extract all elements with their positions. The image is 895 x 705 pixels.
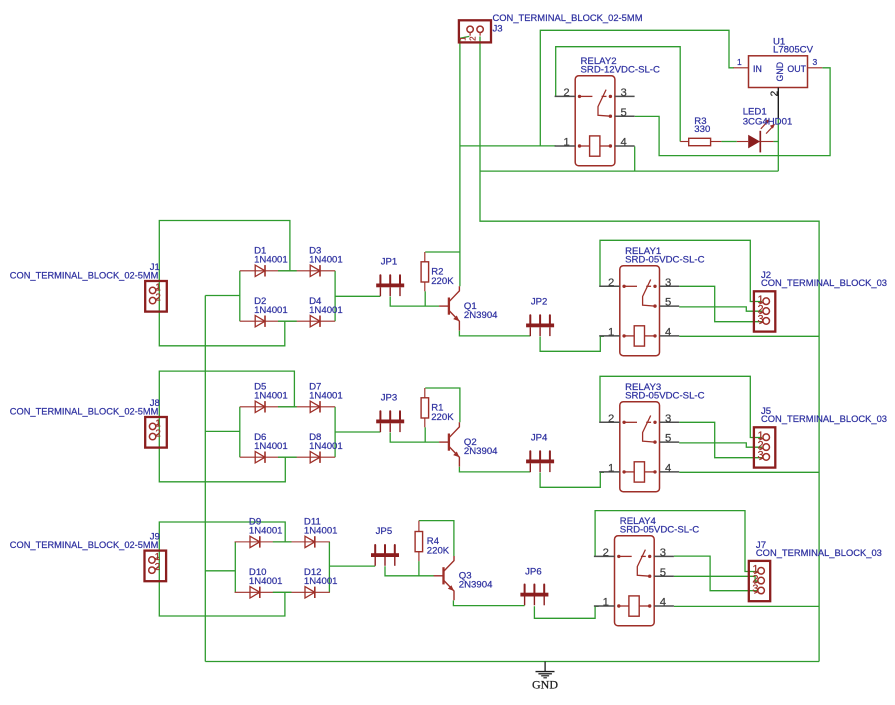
svg-text:J3: J3 (493, 24, 503, 35)
wire bridge3 out to JP5 (329, 565, 375, 567)
ground GND (532, 662, 558, 692)
label D2 (254, 296, 288, 316)
svg-text:1N4001: 1N4001 (304, 526, 338, 537)
wire bridge2 left mid to bus (205, 430, 240, 432)
wire RELAY4 pin5 to J7-2 (674, 576, 758, 581)
label J1 (10, 262, 160, 282)
svg-text:2: 2 (770, 90, 781, 96)
svg-text:4: 4 (665, 327, 671, 339)
wire +12V from J3-1 down (460, 36, 469, 286)
svg-text:2: 2 (155, 429, 160, 440)
wire bridge2 right vertical (334, 407, 336, 457)
svg-text:5: 5 (665, 433, 671, 445)
terminal block J2 (754, 291, 775, 331)
label D4 (309, 296, 343, 316)
wire bridge1 left vertical (239, 271, 241, 321)
svg-text:5: 5 (620, 107, 626, 119)
wire AC1 row1 J1 loop (159, 221, 290, 346)
label D9 (249, 517, 283, 537)
svg-text:CON_TERMINAL_BLOCK_03: CON_TERMINAL_BLOCK_03 (756, 548, 882, 559)
svg-text:1N4001: 1N4001 (254, 305, 288, 316)
wire R4 bottom (418, 561, 420, 576)
relay RELAY2 SRD-12VDC-SL-C (555, 56, 660, 166)
svg-text:3: 3 (813, 57, 818, 67)
wire +12V branch R2 top (425, 251, 460, 253)
svg-text:1N4001: 1N4001 (249, 576, 283, 587)
wire LED cathode to node (773, 141, 778, 143)
svg-text:3CG4HD01: 3CG4HD01 (743, 116, 793, 127)
terminal block J7 (749, 561, 770, 601)
wire JP2-2 to RELAY1 pin1 (540, 336, 604, 351)
svg-text:5: 5 (665, 297, 671, 309)
svg-text:1N4001: 1N4001 (309, 390, 343, 401)
wire Q2 emitter to JP4 (459, 467, 530, 472)
svg-text:GND: GND (775, 62, 785, 82)
label D5 (254, 382, 288, 402)
svg-text:3: 3 (665, 413, 671, 425)
svg-text:3: 3 (757, 314, 763, 326)
label D8 (309, 432, 343, 452)
svg-text:1N4001: 1N4001 (309, 305, 343, 316)
wire JP6-2 to RELAY4 pin1 (534, 606, 598, 618)
label JP3 (381, 392, 398, 403)
transistor Q1 2N3904 (439, 286, 459, 330)
svg-text:1N4001: 1N4001 (254, 254, 288, 265)
wire JP1-2 to Q1 base (390, 297, 439, 307)
wire RELAY1 pin2 riser to J2-1 (600, 240, 762, 301)
svg-text:2: 2 (469, 36, 478, 41)
svg-text:OUT: OUT (787, 64, 806, 74)
wire GND12 branch to U1 GND and RELAY2 pin4 (480, 170, 778, 172)
svg-text:3: 3 (660, 547, 666, 559)
jumper JP6 (520, 585, 548, 606)
label Q3 (459, 571, 493, 591)
terminal block J1 (145, 281, 167, 312)
wire left bus vertical (204, 296, 206, 662)
wire bridge1 out to JP1 (335, 295, 380, 297)
svg-text:4: 4 (665, 463, 671, 475)
svg-text:JP6: JP6 (525, 566, 542, 577)
wire JP3-2 to Q2 base (390, 433, 439, 443)
wire bridge1 left mid to bus (205, 295, 240, 297)
svg-text:3: 3 (752, 583, 758, 595)
svg-text:CON_TERMINAL_BLOCK_02-5MM: CON_TERMINAL_BLOCK_02-5MM (10, 406, 159, 417)
label R2 (431, 266, 454, 286)
svg-text:1: 1 (603, 597, 609, 609)
transistor Q2 2N3904 (439, 422, 459, 466)
label R4 (427, 536, 450, 556)
svg-text:4: 4 (660, 597, 666, 609)
svg-text:2N3904: 2N3904 (459, 580, 493, 591)
wire R2 bottom (424, 291, 426, 306)
label D1 (254, 246, 288, 266)
label JP1 (381, 256, 398, 267)
svg-text:1N4001: 1N4001 (309, 254, 343, 265)
wire RELAY4 pin3 to J7-3 (674, 556, 758, 591)
terminal block J8 (145, 417, 167, 448)
LED LED1 3CG4HD01 (737, 119, 775, 152)
wire bridge3 right vertical (328, 542, 330, 592)
svg-text:2: 2 (608, 277, 614, 289)
relay RELAY3 SRD-05VDC-SL-C (599, 382, 704, 492)
label R1 (431, 402, 454, 422)
wire RELAY3 pin2 riser to J5-1 (600, 376, 762, 437)
wire RELAY1 pin4 to right bus (679, 335, 819, 337)
jumper JP4 (526, 451, 554, 472)
wire bottom GND bus (205, 661, 819, 663)
wire RELAY1 pin3 to J2-3 (679, 286, 762, 321)
label D7 (309, 382, 343, 402)
svg-text:3: 3 (665, 277, 671, 289)
label J7 (756, 540, 882, 559)
terminal block J9 (145, 551, 167, 582)
svg-text:IN: IN (753, 64, 762, 74)
svg-text:2N3904: 2N3904 (464, 446, 498, 457)
svg-text:2: 2 (603, 547, 609, 559)
label D3 (309, 246, 343, 266)
label JP2 (531, 296, 548, 307)
wire RELAY3 pin3 to J5-3 (679, 422, 762, 457)
wire +12V branch to RELAY2 pin1 (460, 145, 556, 147)
bridge rectifier row2 diodes D5-D8 (240, 401, 335, 463)
label Q2 (464, 437, 498, 457)
svg-text:2N3904: 2N3904 (464, 310, 498, 321)
wire Q1 emitter to JP2 (459, 331, 530, 336)
svg-text:SRD-05VDC-SL-C: SRD-05VDC-SL-C (620, 525, 700, 536)
jumper JP5 (371, 545, 399, 566)
wire AC1 row3 J9 loop (159, 522, 285, 616)
svg-text:1N4001: 1N4001 (309, 441, 343, 452)
svg-text:1N4001: 1N4001 (249, 526, 283, 537)
svg-text:JP2: JP2 (531, 296, 548, 307)
wire bridge1 right vertical (334, 271, 336, 321)
terminal block J3 (459, 20, 492, 42)
resistor R4 220K (415, 521, 423, 562)
wire GND12 from J3-2 down and right bus (480, 36, 819, 661)
svg-text:220K: 220K (431, 276, 454, 287)
svg-text:4: 4 (620, 137, 626, 149)
wire RELAY2 pin2 to R3 (556, 47, 681, 142)
svg-text:CON_TERMINAL_BLOCK_02-5MM: CON_TERMINAL_BLOCK_02-5MM (493, 13, 643, 24)
resistor R1 220K (421, 388, 429, 427)
label D10 (249, 567, 283, 587)
svg-text:1: 1 (563, 137, 569, 149)
label U1 (773, 37, 814, 56)
wire U1 GND pin to LED node (777, 118, 779, 171)
voltage regulator U1 L7805CV (734, 56, 823, 119)
svg-text:GND: GND (532, 677, 558, 691)
label J8 (10, 398, 160, 418)
wire bridge2 left vertical (239, 407, 241, 457)
label JP5 (376, 526, 393, 537)
wire RELAY3 pin5 to J5-2 (679, 443, 762, 447)
wire +12V riser to U1 IN (540, 30, 734, 146)
label LED1 (743, 107, 793, 128)
svg-text:220K: 220K (427, 545, 450, 556)
svg-text:2: 2 (563, 87, 569, 99)
wire bridge2 out to JP3 (335, 431, 380, 433)
svg-text:JP5: JP5 (376, 526, 393, 537)
svg-text:220K: 220K (431, 412, 454, 423)
label J3 (493, 13, 643, 35)
wire U1 OUT to RELAY2 pin5 (635, 68, 830, 156)
label Q1 (464, 301, 498, 321)
wire JP5-2 to Q3 base (385, 566, 434, 576)
svg-text:L7805CV: L7805CV (773, 45, 814, 56)
label J2 (761, 270, 887, 289)
svg-text:SRD-12VDC-SL-C: SRD-12VDC-SL-C (581, 65, 661, 76)
svg-text:1N4001: 1N4001 (254, 441, 288, 452)
svg-text:1: 1 (737, 57, 742, 67)
bridge rectifier row3 diodes D9-D12 (235, 536, 330, 598)
wire RELAY4 pin4 to right bus (674, 605, 819, 607)
wire RELAY4 pin2 riser to J7-1 (595, 511, 757, 572)
label D11 (304, 517, 338, 537)
label J5 (761, 406, 887, 425)
label J9 (10, 532, 160, 552)
svg-text:JP1: JP1 (381, 256, 398, 267)
svg-text:1: 1 (459, 36, 468, 41)
svg-text:3: 3 (757, 450, 763, 462)
wire R3 to LED anode (721, 141, 736, 143)
svg-text:CON_TERMINAL_BLOCK_02-5MM: CON_TERMINAL_BLOCK_02-5MM (10, 540, 159, 551)
svg-text:330: 330 (694, 124, 710, 135)
svg-text:CON_TERMINAL_BLOCK_03: CON_TERMINAL_BLOCK_03 (761, 414, 887, 425)
resistor R2 220K (421, 252, 429, 291)
label D6 (254, 432, 288, 452)
svg-text:SRD-05VDC-SL-C: SRD-05VDC-SL-C (625, 255, 705, 266)
label JP6 (525, 566, 542, 577)
svg-text:1: 1 (608, 463, 614, 475)
wire RELAY2 pin4 drop (634, 146, 636, 171)
wire bridge3 left mid to bus (205, 570, 235, 572)
relay RELAY1 SRD-05VDC-SL-C (599, 246, 704, 356)
label D12 (304, 567, 338, 587)
wire R1 top to Q2 collector (425, 388, 460, 422)
svg-text:1N4001: 1N4001 (304, 576, 338, 587)
bridge rectifier row1 diodes D1-D4 (240, 265, 335, 327)
svg-text:2: 2 (155, 293, 160, 304)
wire AC1 row2 J8 loop (159, 371, 294, 482)
svg-text:CON_TERMINAL_BLOCK_03: CON_TERMINAL_BLOCK_03 (761, 278, 887, 289)
jumper JP2 (526, 315, 554, 336)
wire RELAY1 pin5 to J2-2 (679, 307, 762, 311)
wire R1 bottom (424, 427, 426, 442)
svg-text:JP4: JP4 (531, 432, 548, 443)
svg-text:SRD-05VDC-SL-C: SRD-05VDC-SL-C (625, 391, 705, 402)
resistor R3 330 (680, 138, 721, 145)
svg-text:3: 3 (620, 87, 626, 99)
label R3 (694, 116, 710, 135)
terminal block J5 (754, 427, 775, 467)
svg-text:JP3: JP3 (381, 392, 398, 403)
label JP4 (531, 432, 548, 443)
svg-text:2: 2 (608, 413, 614, 425)
svg-text:5: 5 (660, 567, 666, 579)
svg-text:2: 2 (155, 562, 160, 573)
wire JP4-2 to RELAY3 pin1 (540, 472, 604, 487)
transistor Q3 2N3904 (434, 556, 454, 600)
wire bridge3 left vertical (234, 542, 236, 592)
svg-text:1N4001: 1N4001 (254, 390, 288, 401)
wire R4 top to Q3 collector (419, 521, 454, 556)
svg-text:CON_TERMINAL_BLOCK_02-5MM: CON_TERMINAL_BLOCK_02-5MM (10, 270, 159, 281)
wire Q3 emitter to JP6 (453, 600, 524, 605)
wire RELAY3 pin4 to right bus (679, 471, 819, 473)
svg-text:1: 1 (608, 327, 614, 339)
jumper JP1 (376, 275, 404, 296)
jumper JP3 (376, 411, 404, 432)
relay RELAY4 SRD-05VDC-SL-C (594, 516, 699, 626)
